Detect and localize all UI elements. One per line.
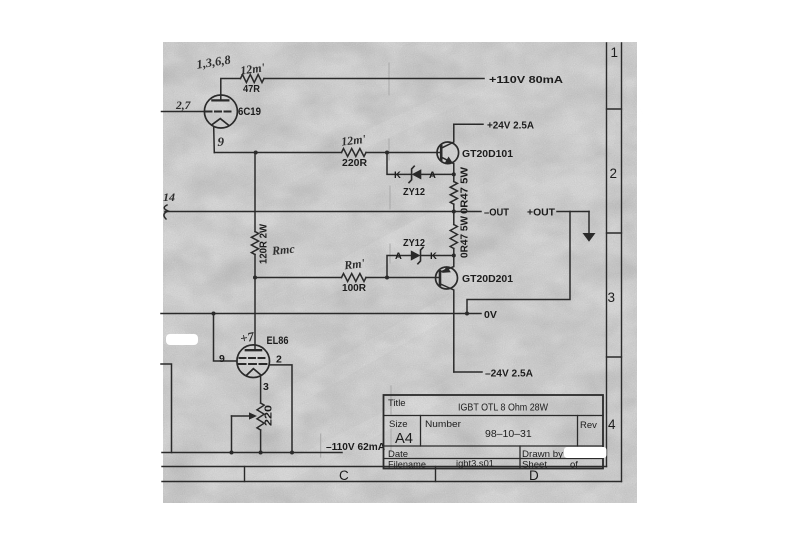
wire +110V rail	[221, 79, 484, 101]
svg-text:igbt3.s01: igbt3.s01	[456, 459, 494, 470]
resistor 0R47 5W upper	[450, 174, 457, 211]
svg-text:98–10–31: 98–10–31	[485, 428, 532, 440]
zener diode ZY12 D1 (cathode left)	[412, 169, 422, 179]
wire diode branch upper	[387, 153, 454, 175]
svg-text:47R: 47R	[243, 83, 260, 95]
svg-text:+OUT: +OUT	[527, 207, 556, 219]
wire +24V	[454, 123, 483, 125]
svg-text:IGBT OTL 8 Ohm 28W: IGBT OTL 8 Ohm 28W	[458, 403, 549, 414]
svg-text:A: A	[429, 170, 436, 181]
svg-text:100R: 100R	[342, 282, 366, 294]
svg-text:A: A	[395, 251, 402, 262]
resistor 100R	[342, 274, 367, 282]
wire +OUT to arrow terminal	[557, 212, 589, 234]
zener diode ZY12 D2 (anode left)	[411, 250, 421, 260]
resistor 220R	[342, 149, 367, 157]
svg-text:14: 14	[163, 190, 175, 204]
svg-text:–OUT: –OUT	[484, 207, 510, 219]
output terminal arrow	[583, 233, 596, 242]
wire +OUT loop down to 0V	[467, 212, 570, 314]
svg-text:Title: Title	[388, 398, 406, 409]
node junction 120R/100R	[253, 276, 257, 280]
transistor Q1 GT20D101 envelope	[437, 142, 459, 164]
svg-text:of: of	[570, 460, 578, 471]
svg-text:2,7: 2,7	[175, 100, 192, 112]
6C19 cathode lead	[213, 127, 216, 152]
Q1 emitter with arrow	[441, 157, 454, 174]
potentiometer wiper arrow	[232, 416, 252, 453]
wire 0V rail	[161, 313, 481, 315]
resistor 0R47 5W lower	[450, 212, 457, 256]
wire cathode rail to 220R	[214, 152, 440, 154]
wire -24V	[454, 371, 482, 373]
Q1 base bar	[440, 146, 443, 160]
svg-text:0V: 0V	[484, 309, 497, 321]
svg-text:K: K	[430, 251, 437, 262]
svg-text:0R47 5W: 0R47 5W	[460, 215, 471, 258]
resistor 47R	[241, 75, 265, 83]
wire left drop	[161, 364, 172, 453]
svg-text:Rev: Rev	[580, 420, 597, 431]
wire pin 2 EL86	[270, 365, 293, 453]
node junction base/diode tap	[385, 151, 389, 155]
Q1 collector	[441, 124, 454, 148]
potentiometer 220	[257, 403, 264, 453]
Q2 base bar	[439, 271, 442, 285]
svg-text:+110V 80mA: +110V 80mA	[489, 74, 563, 86]
transistor Q2 GT20D201 envelope	[436, 267, 458, 289]
node junction at 120R tap	[254, 151, 258, 155]
svg-text:2: 2	[276, 354, 282, 366]
svg-text:ZY12: ZY12	[403, 186, 425, 198]
svg-text:+24V 2.5A: +24V 2.5A	[487, 120, 534, 132]
svg-text:3: 3	[263, 381, 269, 393]
svg-text:9: 9	[219, 353, 225, 365]
wire pin 3 EL86	[260, 377, 262, 403]
6C19 cathode chevron	[212, 119, 229, 126]
EL86 plate	[246, 349, 261, 351]
EL86 grids (dashed)	[239, 358, 269, 364]
node junctions on -110V rail	[230, 451, 234, 455]
svg-text:2: 2	[610, 166, 618, 181]
svg-text:220R: 220R	[342, 157, 367, 169]
EL86 cathode chevron	[246, 369, 261, 376]
svg-text:Size: Size	[389, 419, 407, 430]
svg-text:Drawn by: Drawn by	[522, 449, 563, 460]
resistor 120R 2W chain	[251, 153, 258, 278]
svg-text:9: 9	[218, 134, 225, 149]
white-out patch left	[166, 334, 198, 345]
svg-text:–24V 2.5A: –24V 2.5A	[485, 368, 533, 380]
svg-text:3: 3	[608, 290, 616, 305]
svg-text:1: 1	[611, 45, 619, 60]
node junction -OUT	[452, 210, 456, 214]
svg-text:Rmc: Rmc	[270, 242, 296, 258]
svg-text:C: C	[339, 468, 349, 483]
svg-text:120R 2W: 120R 2W	[259, 223, 270, 264]
node junction 0V/EL86 pin9	[212, 312, 216, 316]
svg-text:GT20D101: GT20D101	[462, 148, 513, 160]
svg-text:–110V 62mA: –110V 62mA	[326, 441, 385, 453]
wire -110V rail	[162, 452, 342, 454]
6C19 plate	[212, 99, 228, 101]
node junction emitter/diode	[452, 172, 456, 176]
Q2 collector	[440, 284, 454, 372]
wire plate feed EL86	[254, 278, 256, 351]
svg-text:Filename: Filename	[388, 460, 426, 471]
wire pin 9 EL86	[214, 314, 238, 362]
wire -OUT rail with break squiggle	[164, 205, 481, 219]
6C19 grid (dashed) + grid lead	[162, 111, 234, 113]
tube V1 6C19 envelope	[204, 95, 237, 128]
svg-text:Number: Number	[425, 419, 461, 430]
white-out patch drawn-by	[564, 447, 607, 458]
svg-text:GT20D201: GT20D201	[462, 273, 513, 285]
node junction 0V/+OUT loop	[465, 312, 469, 316]
tube V2 EL86 envelope	[237, 345, 270, 378]
svg-text:6C19: 6C19	[238, 106, 261, 118]
node junction emitter/diode lower	[452, 254, 456, 258]
svg-text:Rmʹ: Rmʹ	[342, 256, 366, 273]
svg-text:220: 220	[264, 404, 275, 426]
Q2 emitter with arrow (points to bar)	[440, 256, 454, 273]
svg-text:K: K	[394, 170, 401, 181]
svg-text:4: 4	[608, 417, 616, 432]
svg-text:Date: Date	[388, 449, 408, 460]
svg-text:A4: A4	[395, 431, 413, 447]
svg-text:Sheet: Sheet	[522, 460, 547, 471]
svg-text:EL86: EL86	[267, 335, 289, 347]
wire 100R rail	[255, 277, 440, 279]
svg-text:ZY12: ZY12	[403, 237, 425, 249]
wire diode branch lower	[387, 256, 454, 278]
node junction 100R/diode	[385, 276, 389, 280]
svg-text:0R47 5W: 0R47 5W	[460, 166, 471, 214]
